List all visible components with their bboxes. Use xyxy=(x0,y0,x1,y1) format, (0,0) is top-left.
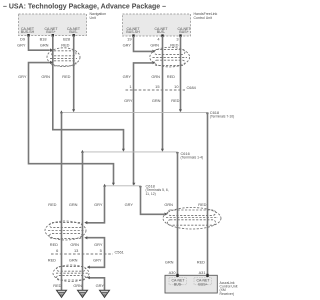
ground G1 xyxy=(57,290,67,297)
pin label A31 CA-NET BUS+ xyxy=(196,279,210,287)
title xyxy=(3,4,166,11)
terminal pins acuralink xyxy=(176,274,208,277)
handsfreelink control unit box xyxy=(123,12,218,36)
wire color labels bottom-left trio xyxy=(48,202,103,207)
pin number B28 xyxy=(63,36,70,41)
connector C561 dashed line xyxy=(51,253,113,255)
node label C616 terminals 1-4 xyxy=(181,151,204,160)
svg-text:RED: RED xyxy=(197,260,205,265)
GRN bus junction line xyxy=(83,151,178,153)
svg-text:6: 6 xyxy=(56,248,58,253)
inline connector bottom left upper xyxy=(45,221,86,240)
wire color labels row2 left xyxy=(18,74,71,79)
svg-text:RED: RED xyxy=(171,98,179,103)
svg-text:3: 3 xyxy=(176,36,178,41)
junction arrow RED left drop xyxy=(60,110,63,113)
svg-text:GRN: GRN xyxy=(164,202,173,207)
wire color labels row1 right xyxy=(123,43,179,48)
svg-text:BUS+: BUS+ xyxy=(46,30,55,34)
pin label B28 CA-NET BUS- xyxy=(67,27,81,34)
wire RED navigation xyxy=(73,36,75,112)
inline connector acuralink C618 xyxy=(163,208,221,230)
terminal arrow GRY into right connector top xyxy=(152,50,155,53)
terminal arrow GRY out of lower connector bottom xyxy=(87,276,90,279)
svg-text:BUS-: BUS- xyxy=(69,30,78,34)
svg-text:GRN: GRN xyxy=(41,74,50,79)
wire color labels row2 right xyxy=(123,74,176,79)
junction arrow GRY hfl wire end xyxy=(132,183,135,186)
terminal arrow GRY out of left connector bottom xyxy=(50,61,53,64)
svg-text:GRN: GRN xyxy=(152,98,161,103)
svg-text:GRY: GRY xyxy=(94,242,103,247)
junction arrow GRY nav wire end xyxy=(112,183,115,186)
svg-text:RED: RED xyxy=(50,242,58,247)
wire GRN drop to acuralink A30 xyxy=(177,152,179,275)
pin number 6 at C561 xyxy=(56,248,58,253)
svg-text:GRY: GRY xyxy=(93,258,102,263)
pin number 19 xyxy=(127,36,131,41)
svg-text:GRN: GRN xyxy=(73,283,82,288)
terminal pins navigation unit xyxy=(27,34,75,37)
junction arrow GRN right drop C616 xyxy=(176,152,179,155)
ground G3 xyxy=(100,290,110,297)
svg-text:BUS-SH: BUS-SH xyxy=(126,30,140,34)
svg-text:4: 4 xyxy=(157,36,160,41)
svg-text:GRN: GRN xyxy=(69,258,78,263)
wire color labels above grounds xyxy=(53,283,104,288)
pin label A30 CA-NET BUS- xyxy=(171,279,185,287)
connector C684 dashed line xyxy=(126,89,186,91)
junction arrow GRN nav wire end xyxy=(122,149,125,152)
junction arrow GRY right drop C618 xyxy=(139,186,142,189)
svg-text:B28: B28 xyxy=(63,36,70,41)
acuralink control unit box xyxy=(165,275,237,296)
wire GRY shield drop to ground with jogs xyxy=(87,186,105,290)
svg-text:Control Unit: Control Unit xyxy=(194,16,213,20)
svg-text:GRY: GRY xyxy=(123,43,132,48)
wire color labels above acuralink box xyxy=(165,260,205,265)
svg-text:1: 1 xyxy=(129,84,131,89)
svg-text:10: 10 xyxy=(174,84,179,89)
svg-text:RED: RED xyxy=(167,74,175,79)
pin label 3 CA-NET BUS+ xyxy=(177,27,191,34)
junction arrow GRY left drop xyxy=(103,184,106,187)
svg-text:GRY: GRY xyxy=(124,98,133,103)
svg-text:RED: RED xyxy=(62,74,70,79)
node label C618 terminals 5 6 11 12 xyxy=(146,184,169,196)
svg-text:Receiver): Receiver) xyxy=(220,292,235,296)
junction arrow RED hfl wire end xyxy=(179,109,182,112)
junction arrow GRN left drop xyxy=(81,150,84,153)
pin number A31 xyxy=(199,270,206,275)
svg-text:GRY: GRY xyxy=(96,283,105,288)
junction arrow RED nav wire end xyxy=(72,109,75,112)
svg-text:B18: B18 xyxy=(40,36,47,41)
terminal arrow GRY out of right connector bottom xyxy=(152,61,155,64)
SHIELD bus junction line xyxy=(105,185,141,187)
svg-text:C684: C684 xyxy=(187,85,197,90)
junction arrow RED right drop C618 xyxy=(206,113,209,116)
pin number A30 xyxy=(169,270,177,275)
wire RED handsfreelink xyxy=(180,36,182,111)
wire GRY handsfreelink with jog through connector xyxy=(134,36,153,185)
pin label boxes acuralink xyxy=(169,278,212,285)
svg-text:Unit: Unit xyxy=(90,16,96,20)
svg-text:C561: C561 xyxy=(115,249,124,254)
svg-text:RED: RED xyxy=(48,202,56,207)
wire RED drop to acuralink A31 xyxy=(207,112,209,275)
wire GRN bus drop to ground xyxy=(82,152,84,290)
svg-text:BUS-: BUS- xyxy=(157,30,166,34)
svg-text:BUS-SH: BUS-SH xyxy=(21,30,35,34)
terminal arrow GRY into left connector top xyxy=(50,48,53,51)
RED bus junction line xyxy=(62,111,208,113)
pin number 5 at C561 xyxy=(100,248,102,253)
terminal arrow GRY into acuralink connector xyxy=(164,213,167,216)
svg-text:RED: RED xyxy=(170,43,178,48)
svg-text:5: 5 xyxy=(100,248,102,253)
svg-text:GRN: GRN xyxy=(69,202,78,207)
wire color labels below C561 xyxy=(48,258,102,263)
wire color labels below bottom-left connector xyxy=(50,242,103,247)
terminal arrow GRY out of bottom-left connector bottom xyxy=(84,236,87,239)
svg-text:GRN: GRN xyxy=(165,260,174,265)
svg-text:BUS+: BUS+ xyxy=(179,30,188,34)
svg-text:GRN: GRN xyxy=(150,43,159,48)
svg-text:GRN: GRN xyxy=(70,242,79,247)
terminal arrow GRY into lower connector top xyxy=(87,266,90,269)
svg-text:GRY: GRY xyxy=(123,74,132,79)
svg-text:15: 15 xyxy=(155,84,159,89)
svg-text:GRY: GRY xyxy=(18,74,27,79)
svg-text:19: 19 xyxy=(127,36,131,41)
pin number 13 at C561 xyxy=(74,248,78,253)
svg-text:GRY: GRY xyxy=(17,43,26,48)
pin number 4 xyxy=(157,36,160,41)
wire GRN navigation xyxy=(53,36,124,151)
svg-text:A31: A31 xyxy=(199,270,206,275)
pin number 1 at C684 xyxy=(129,84,131,89)
node label C618 terminals 7-10 xyxy=(210,110,235,119)
pin label 19 CA-NET BUS-SH xyxy=(126,27,140,34)
svg-text:RED: RED xyxy=(48,258,56,263)
svg-text:A30: A30 xyxy=(169,270,177,275)
inline connector left xyxy=(47,48,80,67)
svg-text:BUS+: BUS+ xyxy=(198,282,207,286)
pin label B18 CA-NET BUS+ xyxy=(44,27,58,34)
wire RED bus drop to ground xyxy=(61,112,63,290)
inline connector bottom left lower xyxy=(53,265,89,282)
inline connector right xyxy=(150,47,190,67)
pin number 10 at C684 xyxy=(174,84,179,89)
svg-text:13: 13 xyxy=(74,248,78,253)
connector label C684 xyxy=(187,85,197,90)
svg-text:RED: RED xyxy=(53,283,61,288)
navigation unit box xyxy=(19,12,107,35)
svg-text:RED: RED xyxy=(61,43,69,48)
wire color labels row3 right xyxy=(124,98,180,103)
wire GRY navigation shield with jog through connector xyxy=(29,36,114,185)
svg-text:GRY: GRY xyxy=(125,202,134,207)
svg-text:– USA: Technology Package, Adv: – USA: Technology Package, Advance Packa… xyxy=(3,4,166,11)
pin number 15 at C684 xyxy=(155,84,159,89)
wire GRY shield to C618 connector right xyxy=(141,186,165,215)
pin label D9 CA-NET BUS-SH xyxy=(21,27,35,34)
svg-text:(Terminals 7-10): (Terminals 7-10) xyxy=(210,114,235,118)
pin number B18 xyxy=(40,36,47,41)
svg-text:D9: D9 xyxy=(20,36,25,41)
pin label 4 CA-NET BUS- xyxy=(154,27,168,34)
svg-text:(Terminals 1-4): (Terminals 1-4) xyxy=(181,156,204,160)
wire color labels row1 left xyxy=(17,43,70,48)
svg-text:BUS-: BUS- xyxy=(174,282,183,286)
terminal arrow GRY into bottom-left connector top xyxy=(84,221,87,224)
svg-text:GRN: GRN xyxy=(151,74,160,79)
terminal pins handsfreelink xyxy=(132,34,181,37)
svg-text:GRN: GRN xyxy=(40,43,49,48)
svg-text:RED: RED xyxy=(198,202,206,207)
connector label C561 xyxy=(115,249,124,254)
pin number 3 xyxy=(176,36,178,41)
wire GRN handsfreelink xyxy=(162,36,164,150)
svg-text:GRY: GRY xyxy=(94,202,103,207)
pin number D9 xyxy=(20,36,25,41)
wire color labels right trio xyxy=(125,202,207,207)
svg-text:11, 12): 11, 12) xyxy=(146,192,156,196)
junction arrow GRN hfl wire end xyxy=(161,149,164,152)
ground G2 xyxy=(78,290,88,297)
